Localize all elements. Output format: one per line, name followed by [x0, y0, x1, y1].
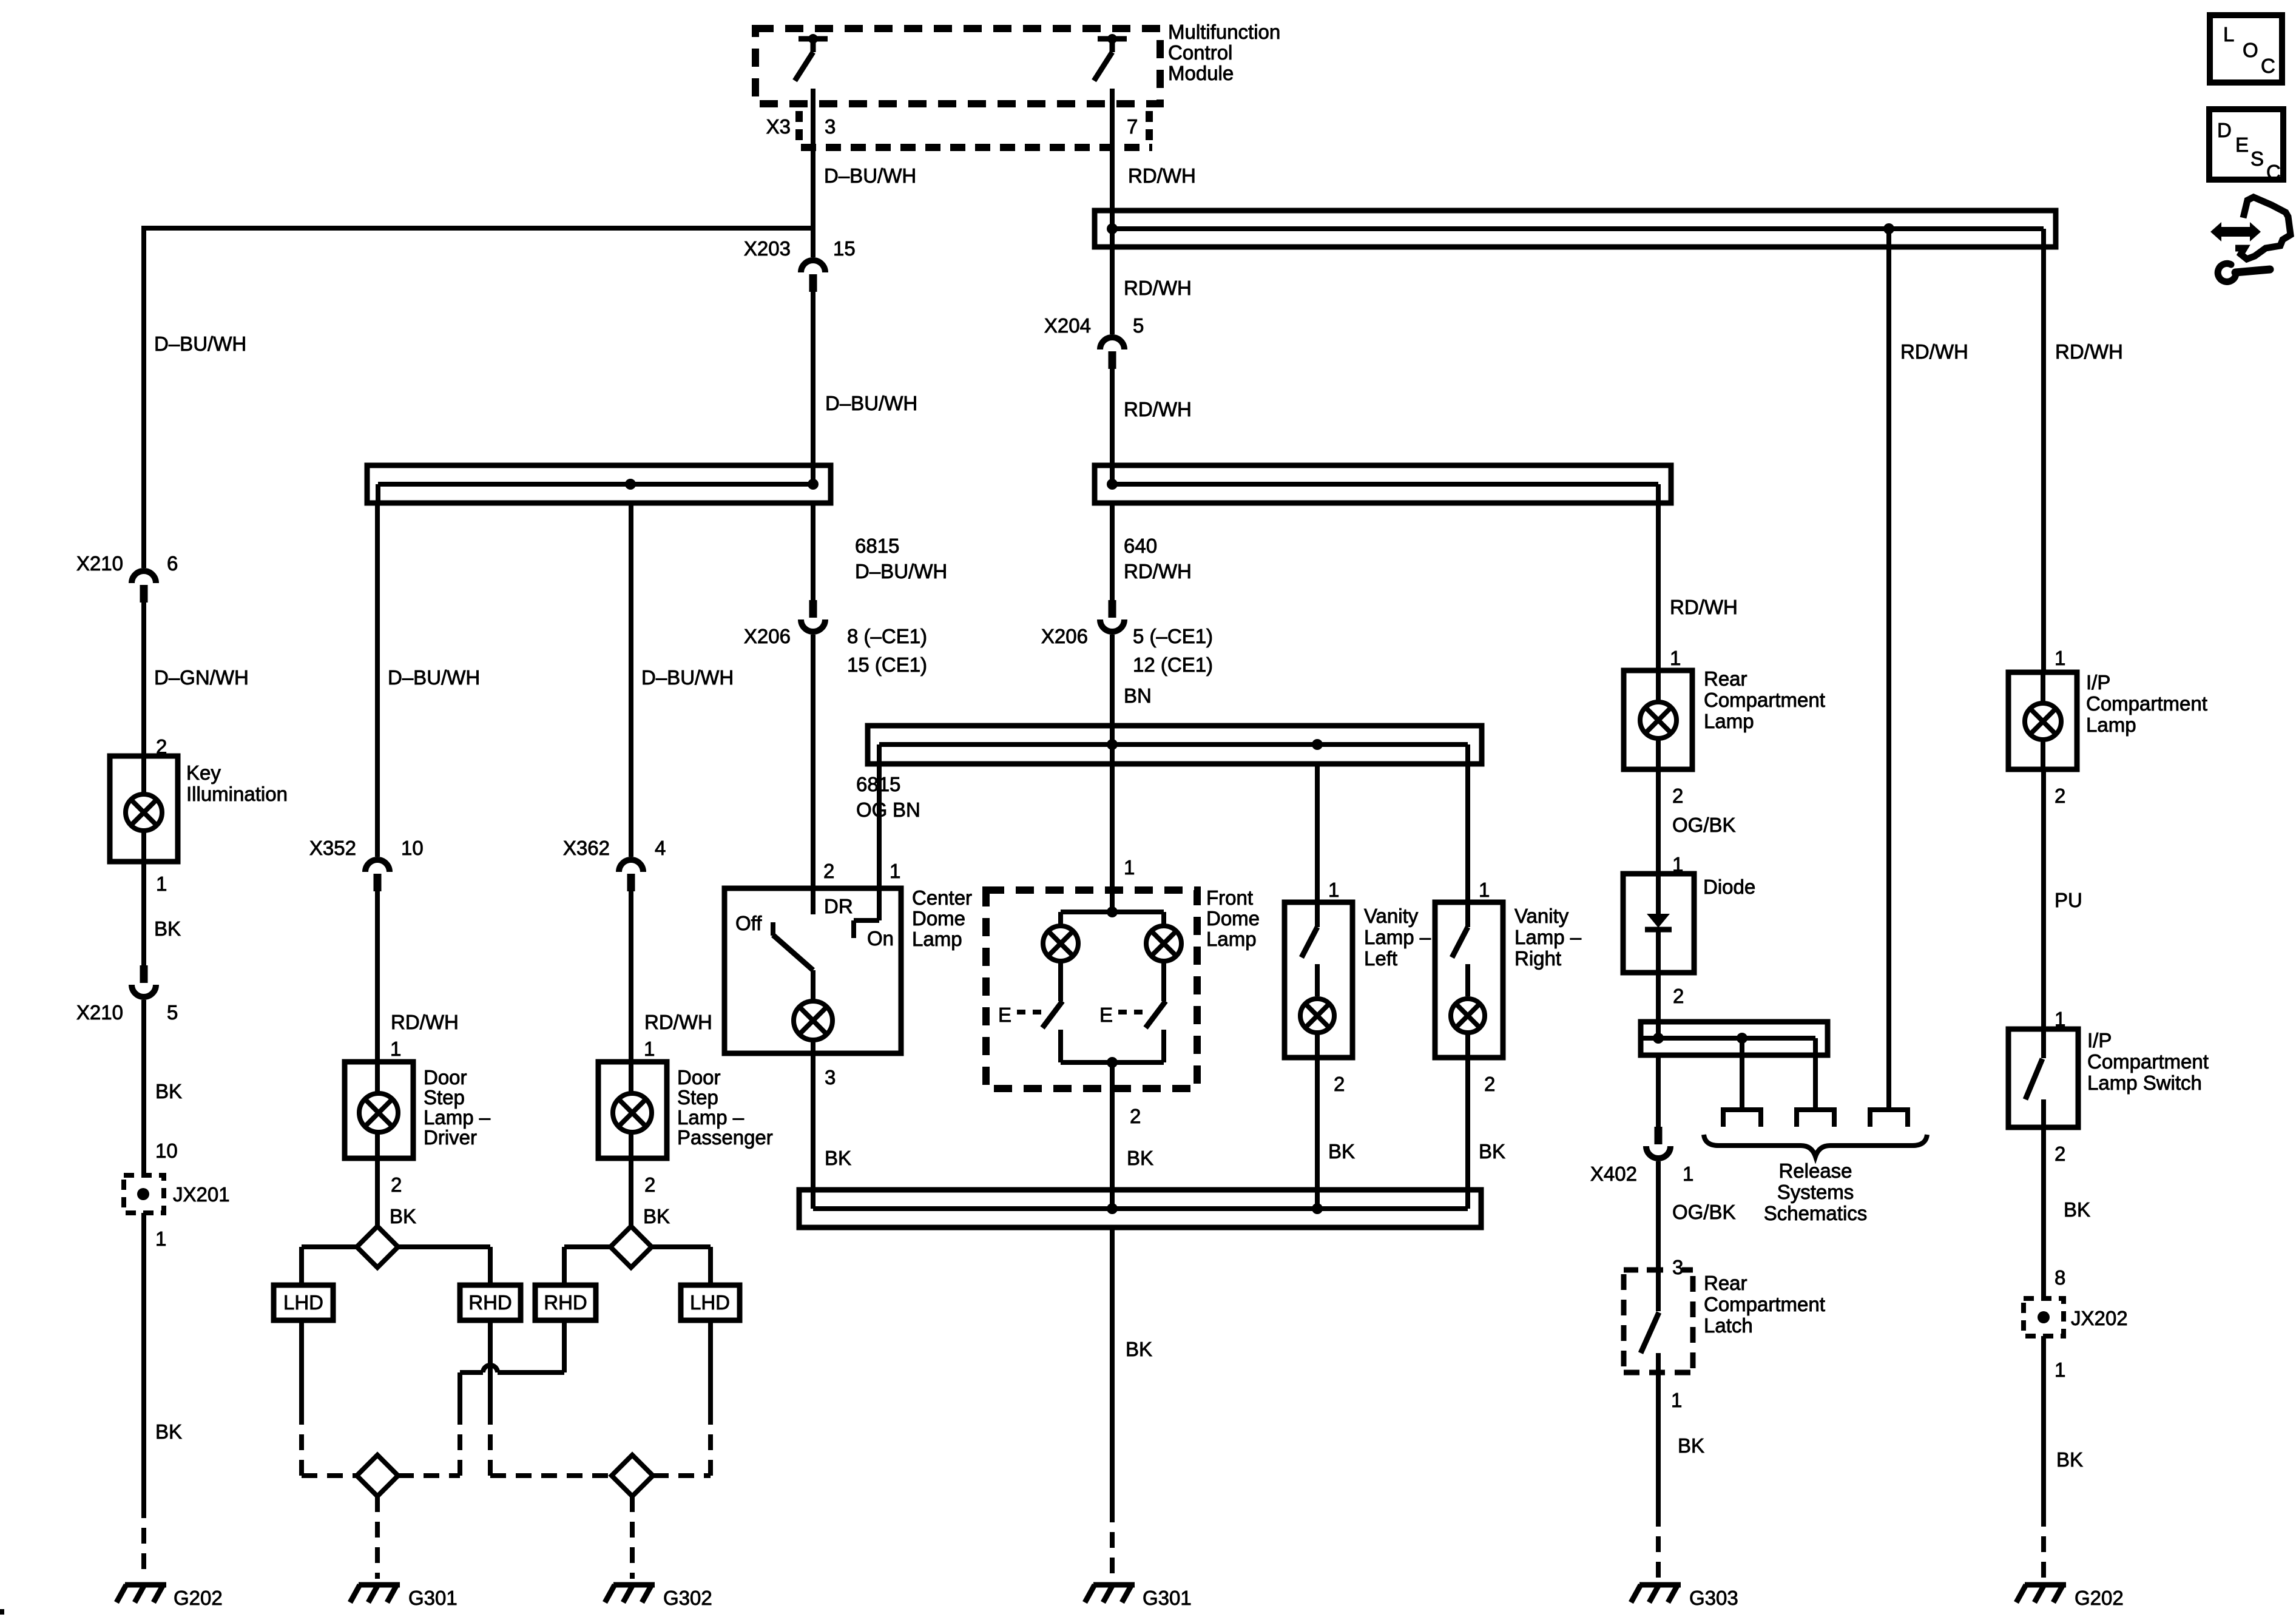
vanity right switch blade [1452, 927, 1468, 957]
svg-text:BK: BK [2056, 1448, 2083, 1471]
junction dot front dome top [1107, 906, 1118, 917]
connector X402 pin 1 [1655, 1127, 1663, 1144]
svg-text:RD/WH: RD/WH [644, 1011, 712, 1033]
svg-text:E: E [998, 1004, 1011, 1026]
vanity right mid stub [1465, 964, 1470, 996]
svg-text:Passenger: Passenger [677, 1126, 773, 1149]
front dome right lower contact [1161, 1030, 1166, 1062]
svg-text:Module: Module [1168, 62, 1234, 84]
svg-text:Lamp: Lamp [912, 928, 962, 950]
svg-text:2: 2 [1130, 1105, 1141, 1127]
svg-text:BK: BK [1127, 1147, 1153, 1169]
label X210 5 [76, 1001, 178, 1024]
wire below LHD passenger (solid then dashed) [708, 1320, 713, 1476]
front dome left bulb stub [1058, 912, 1063, 925]
svg-text:LHD: LHD [283, 1291, 323, 1314]
svg-text:L: L [2223, 23, 2234, 46]
front dome right switch blade [1146, 1001, 1166, 1028]
wire 6815 OG X206 to center dome lamp [811, 635, 815, 888]
wire MFCM pin7 down through bus to X204 [1110, 89, 1115, 334]
wire PU lamp to switch [2041, 769, 2046, 1029]
front dome left door-switch E [998, 1004, 1047, 1026]
connector X210 pin 5 [140, 965, 148, 983]
svg-text:X3: X3 [766, 115, 791, 138]
wire RD/WH X362 to door step lamp passenger [629, 891, 633, 1062]
svg-text:RD/WH: RD/WH [1128, 164, 1196, 187]
front dome right bulb lower stub [1161, 963, 1166, 1001]
svg-text:Center: Center [912, 886, 972, 909]
svg-text:C: C [2261, 55, 2275, 77]
junction dot JX201 [137, 1188, 149, 1200]
svg-text:RHD: RHD [544, 1291, 587, 1314]
label I/P Compartment Lamp [2086, 671, 2207, 736]
svg-text:7: 7 [1127, 115, 1138, 138]
center dome lamp stub [811, 970, 815, 1002]
wire passenger diamond to LHD [653, 1247, 711, 1285]
label Rear Compartment Lamp [1704, 667, 1825, 732]
variant box LHD (driver) [274, 1285, 333, 1320]
front dome bottom rail [1061, 1060, 1164, 1065]
center dome lamp bulb [794, 1001, 832, 1040]
horizontal branch wire to left column [141, 226, 813, 231]
component Key Illumination (box) [110, 756, 178, 862]
svg-text:D–BU/WH: D–BU/WH [825, 392, 917, 414]
svg-text:JX201: JX201 [173, 1183, 230, 1206]
svg-text:Compartment: Compartment [1704, 1293, 1825, 1315]
ground G202 (right) [2025, 1582, 2066, 1588]
svg-text:Illumination: Illumination [186, 783, 288, 805]
I/P switch blade [2025, 1059, 2042, 1099]
wire front dome pin1 entry [1110, 766, 1115, 912]
svg-text:3: 3 [1672, 1256, 1683, 1278]
I/P lamp bulb [2025, 703, 2061, 740]
svg-text:I/P: I/P [2086, 671, 2110, 694]
svg-text:Dome: Dome [912, 907, 965, 930]
svg-text:X210: X210 [76, 1001, 123, 1024]
vanity right switch stub [1465, 902, 1470, 927]
svg-text:6: 6 [167, 552, 178, 575]
svg-text:BK: BK [390, 1205, 416, 1227]
svg-text:4: 4 [655, 837, 666, 859]
ground G202 (left) [125, 1582, 166, 1588]
svg-text:Latch: Latch [1704, 1314, 1753, 1337]
latch switch lower stub [1656, 1353, 1661, 1372]
connector X206 pin 8/15 (center) [809, 600, 817, 618]
switch S2 inside MFCM (pin 7) [1094, 34, 1127, 81]
svg-text:G301: G301 [408, 1587, 458, 1609]
svg-text:1: 1 [2055, 1359, 2065, 1381]
svg-text:Key: Key [186, 761, 221, 784]
svg-text:1: 1 [1124, 856, 1135, 879]
junction dot bus1 at MFCM pin7 wire [1107, 223, 1118, 234]
label 6815 D-BU/WH [855, 535, 947, 582]
svg-text:OG/BK: OG/BK [1672, 1201, 1736, 1223]
svg-text:OG: OG [856, 798, 887, 821]
diode triangle [1647, 914, 1670, 928]
svg-text:BN: BN [893, 798, 920, 821]
wire BK switch to JX202 [2041, 1127, 2046, 1298]
label Door Step Lamp - Driver [424, 1066, 491, 1149]
door step lamp passenger bulb [613, 1093, 652, 1132]
svg-text:2: 2 [823, 860, 834, 882]
I/P lamp bottom stub [2041, 741, 2045, 769]
icon LOC box [2210, 15, 2282, 83]
wire D-BU/WH bus2 to X362 [629, 505, 633, 857]
svg-text:2: 2 [1673, 985, 1684, 1007]
dashed lead to G302 [630, 1496, 635, 1579]
wire BN X206 to BN bus [1110, 635, 1115, 766]
label X203 15 [744, 237, 856, 260]
svg-text:RD/WH: RD/WH [1124, 277, 1192, 299]
svg-text:RD/WH: RD/WH [1124, 398, 1192, 420]
component Center Dome Lamp (box) [724, 888, 901, 1053]
wire OG/BK X402 to latch [1656, 1161, 1661, 1270]
diode anode wire [1656, 874, 1661, 916]
latch switch blade [1641, 1312, 1659, 1353]
release stub 1 terminal [1723, 1110, 1761, 1127]
switch S1 inside MFCM (pin 3) [795, 34, 828, 81]
wire BN into center dome pin 1 [877, 766, 882, 920]
svg-text:Lamp: Lamp [1704, 710, 1754, 732]
svg-text:Diode: Diode [1703, 876, 1755, 898]
svg-text:I/P: I/P [2087, 1029, 2112, 1052]
svg-text:2: 2 [644, 1173, 655, 1196]
wire BK bus to G301 [1110, 1227, 1115, 1507]
svg-text:Door: Door [424, 1066, 467, 1089]
junction block JX202 (dashed box) [2024, 1298, 2064, 1336]
svg-text:5: 5 [167, 1001, 178, 1024]
wire D-BU/WH bus2 to X352 [375, 505, 380, 857]
label X204 5 [1044, 314, 1144, 337]
svg-text:RD/WH: RD/WH [2055, 340, 2123, 363]
center dome pin1 internal path and On contact [854, 920, 879, 938]
junction dot bus2 at X362 branch [625, 479, 636, 490]
front dome left bulb lower stub [1058, 963, 1063, 1001]
component Door Step Lamp - Driver (box) [345, 1062, 413, 1158]
svg-text:RD/WH: RD/WH [1124, 560, 1192, 582]
label X3 pins 3 and 7 [766, 115, 1138, 138]
svg-text:G302: G302 [663, 1587, 712, 1609]
junction dot BK bus at front dome wire [1107, 1203, 1118, 1214]
diode cathode bar [1645, 927, 1672, 933]
label Release Systems Schematics [1764, 1160, 1868, 1224]
wire below RHD driver (solid then dashed) [488, 1320, 493, 1476]
label Center Dome Lamp [912, 886, 972, 950]
key illumination bottom stub [141, 832, 146, 862]
wire D-GN/WH X210 to key illumination [141, 603, 146, 756]
svg-text:Systems: Systems [1777, 1181, 1854, 1203]
svg-text:E: E [2235, 133, 2249, 156]
svg-text:1: 1 [1683, 1163, 1693, 1185]
wire front dome pin 2 out [1110, 1062, 1115, 1209]
svg-text:10: 10 [155, 1139, 178, 1162]
svg-text:12 (CE1): 12 (CE1) [1133, 653, 1213, 676]
svg-text:BK: BK [155, 1420, 182, 1443]
svg-text:Off: Off [735, 912, 762, 934]
wire diode to release bus [1656, 973, 1661, 1038]
door step lamp driver bulb [359, 1093, 398, 1132]
svg-text:Front: Front [1206, 886, 1253, 909]
ground G303 [1639, 1582, 1681, 1588]
front dome left switch blade [1042, 1001, 1062, 1028]
junction block JX201 (dashed box) [124, 1175, 164, 1213]
svg-text:BK: BK [154, 917, 181, 940]
svg-text:BK: BK [2064, 1198, 2090, 1221]
svg-text:Door: Door [677, 1066, 721, 1089]
door step lamp passenger top stub [629, 1062, 633, 1093]
wire 640 RD/WH bus3 to X206 right [1110, 505, 1115, 600]
junction dot bus2 at X203 wire [808, 479, 819, 490]
svg-text:X402: X402 [1590, 1163, 1637, 1185]
component Rear Compartment Lamp (box) [1624, 670, 1692, 769]
svg-text:1: 1 [1328, 879, 1339, 901]
label X206 8 (-CE1) 15 (CE1) [744, 625, 927, 676]
release stub 1 wire [1740, 1038, 1744, 1110]
connector X210 pin 6 [132, 571, 156, 583]
latch switch upper stub [1656, 1270, 1661, 1311]
svg-text:640: 640 [1124, 535, 1157, 557]
component Diode (box) [1623, 874, 1694, 973]
svg-text:1: 1 [1671, 1389, 1682, 1411]
svg-text:Lamp –: Lamp – [424, 1106, 491, 1129]
dashed rail to G301 splice (left) [302, 1473, 460, 1478]
svg-text:Lamp Switch: Lamp Switch [2087, 1072, 2202, 1094]
bus bar RD/WH (top right) [1095, 211, 2056, 249]
wire BK latch to G303 [1656, 1372, 1661, 1511]
wire MFCM pin3 down to X203 [811, 89, 815, 257]
svg-text:Lamp –: Lamp – [677, 1106, 745, 1129]
svg-text:E: E [1099, 1004, 1113, 1026]
svg-text:D: D [2217, 119, 2232, 141]
rear compartment lamp bottom stub [1656, 740, 1661, 769]
svg-text:2: 2 [2055, 785, 2065, 807]
module Multifunction Control Module (dashed outline) [755, 29, 1160, 104]
svg-text:X210: X210 [76, 552, 123, 575]
bus bar RD/WH (center, bus3) [1095, 465, 1671, 505]
svg-text:Lamp –: Lamp – [1364, 926, 1431, 948]
svg-text:Multifunction: Multifunction [1168, 21, 1280, 43]
splice diamond G301 path [357, 1455, 398, 1496]
rear compartment lamp top stub [1656, 670, 1661, 701]
svg-text:2: 2 [1484, 1073, 1495, 1095]
dashed lead to G301 (left) [375, 1496, 380, 1579]
svg-text:G301: G301 [1143, 1587, 1192, 1609]
vanity right lower stub [1465, 1033, 1470, 1058]
center dome Off contact [771, 922, 775, 936]
wire BK JX201 down [141, 1213, 146, 1502]
wire RD/WH bus1 to release stub 3 [1886, 229, 1891, 1110]
svg-text:G202: G202 [2075, 1587, 2124, 1609]
junction dot JX202 [2038, 1311, 2050, 1323]
label X206 5 (-CE1) 12 (CE1) [1041, 625, 1213, 676]
wire center dome pin 3 out [811, 1039, 815, 1053]
brace Release Systems Schematics [1704, 1135, 1927, 1156]
svg-text:X206: X206 [744, 625, 791, 647]
key illumination top stub [141, 756, 146, 794]
icon DESC box [2209, 109, 2283, 183]
connector X362 pin 4 [619, 860, 643, 872]
variant box RHD (passenger) [535, 1285, 596, 1320]
dashed lead to G202 (right) [2041, 1511, 2046, 1579]
svg-text:Step: Step [424, 1086, 465, 1109]
svg-text:Dome: Dome [1206, 907, 1260, 930]
component I/P Compartment Lamp Switch (box) [2008, 1029, 2078, 1127]
release stub 2 terminal [1797, 1110, 1834, 1127]
splice diamond (door step driver) [357, 1226, 398, 1268]
label Front Dome Lamp [1206, 886, 1260, 950]
I/P switch upper stub [2041, 1029, 2046, 1058]
vanity right bulb [1451, 999, 1485, 1033]
svg-text:OG/BK: OG/BK [1672, 814, 1736, 836]
svg-text:JX202: JX202 [2071, 1307, 2128, 1329]
variant box LHD (passenger) [681, 1285, 740, 1320]
door step lamp passenger bottom stub [629, 1132, 633, 1158]
svg-text:O: O [2243, 39, 2258, 61]
wire BN to vanity lamp left [1315, 766, 1320, 902]
vanity left switch blade [1302, 927, 1317, 957]
connector X204 pin 5 [1100, 337, 1124, 349]
svg-text:RD/WH: RD/WH [391, 1011, 459, 1033]
svg-text:BK: BK [1328, 1140, 1355, 1163]
svg-text:5: 5 [1133, 314, 1144, 337]
door step lamp driver top stub [375, 1062, 380, 1093]
bus bar release systems [1641, 1022, 1828, 1058]
variant box RHD (driver) [460, 1285, 521, 1320]
wire BK X210-5 to JX201 [141, 1000, 146, 1175]
svg-text:Vanity: Vanity [1364, 905, 1419, 927]
wire BK door step driver to splice diamond [375, 1158, 380, 1226]
dashed lead to G202 (left) [141, 1502, 146, 1579]
svg-text:S: S [2250, 147, 2264, 170]
label Door Step Lamp - Passenger [677, 1066, 773, 1149]
svg-text:2: 2 [2055, 1143, 2065, 1165]
svg-text:15: 15 [833, 237, 856, 260]
svg-text:1: 1 [644, 1038, 655, 1060]
svg-text:1: 1 [1479, 879, 1490, 901]
front dome left lower contact [1058, 1030, 1063, 1062]
svg-text:X204: X204 [1044, 314, 1091, 337]
svg-text:D–GN/WH: D–GN/WH [154, 666, 249, 689]
wire left column down to X210-6 [141, 228, 146, 568]
svg-text:X203: X203 [744, 237, 791, 260]
svg-text:X206: X206 [1041, 625, 1088, 647]
svg-text:On: On [867, 927, 894, 950]
svg-text:2: 2 [1334, 1073, 1345, 1095]
page artifact dot (bottom-left) [0, 1609, 4, 1615]
svg-text:D–BU/WH: D–BU/WH [154, 333, 246, 355]
front dome left bulb [1043, 926, 1078, 961]
label Rear Compartment Latch [1704, 1272, 1825, 1337]
ground G302 [613, 1582, 655, 1588]
svg-text:5 (–CE1): 5 (–CE1) [1133, 625, 1213, 647]
svg-text:1: 1 [2055, 647, 2065, 669]
svg-text:DR: DR [824, 895, 853, 917]
svg-text:Lamp –: Lamp – [1514, 926, 1582, 948]
svg-text:C: C [2266, 161, 2281, 183]
wire RD/WH bus1 to I/P compartment lamp [2041, 249, 2046, 672]
wire D-BU/WH X203 to bus2 [811, 292, 815, 484]
svg-text:8: 8 [2055, 1266, 2065, 1289]
front dome right bulb [1146, 926, 1181, 961]
svg-text:RHD: RHD [468, 1291, 512, 1314]
bus bar BN (above dome lamps) [868, 726, 1482, 766]
front dome top rail [1061, 910, 1164, 914]
svg-text:1: 1 [890, 860, 900, 882]
wire below LHD driver (solid then dashed) [299, 1320, 304, 1476]
wire RD/WH bus3 to rear compartment lamp [1656, 505, 1661, 670]
wire BK center dome to BK bus [811, 1053, 815, 1209]
label X352 10 [309, 837, 424, 859]
svg-text:3: 3 [825, 1066, 836, 1089]
label X210 6 [76, 552, 178, 575]
svg-text:BK: BK [1126, 1338, 1152, 1360]
svg-text:15 (CE1): 15 (CE1) [847, 653, 927, 676]
I/P lamp top stub [2041, 672, 2045, 703]
svg-text:RD/WH: RD/WH [1670, 596, 1738, 618]
release stub 3 terminal [1870, 1110, 1908, 1127]
component Front Dome Lamp (dashed box) [986, 890, 1197, 1089]
label X402 1 [1590, 1163, 1693, 1185]
svg-text:Right: Right [1514, 947, 1561, 970]
splice diamond (door step passenger) [610, 1226, 652, 1268]
svg-text:Rear: Rear [1704, 1272, 1747, 1294]
wire RD/WH X352 to door step lamp driver [375, 891, 380, 1062]
svg-text:Control: Control [1168, 41, 1232, 64]
junction dot BN bus at front dome wire [1107, 739, 1118, 750]
vanity left bulb [1300, 999, 1334, 1033]
junction dot bus1 at release-systems drop [1883, 223, 1894, 234]
label 640 RD/WH [1124, 535, 1192, 582]
svg-text:8 (–CE1): 8 (–CE1) [847, 625, 927, 647]
svg-text:BK: BK [155, 1080, 182, 1102]
junction dot BK bus at vanity-left wire [1312, 1203, 1323, 1214]
component Door Step Lamp - Passenger (box) [598, 1062, 667, 1158]
svg-text:PU: PU [2055, 889, 2082, 911]
svg-text:Compartment: Compartment [1704, 689, 1825, 711]
wire driver diamond to RHD [398, 1247, 490, 1285]
label I/P Compartment Lamp Switch [2087, 1029, 2209, 1094]
wire BK door step passenger to splice diamond [629, 1158, 633, 1226]
key illumination bulb [126, 794, 162, 831]
wire BK vanity right to BK bus [1465, 1058, 1470, 1209]
svg-text:BN: BN [1124, 684, 1152, 707]
vanity left switch stub [1315, 902, 1320, 927]
label Vanity Lamp - Left [1364, 905, 1431, 970]
svg-text:2: 2 [391, 1173, 402, 1196]
component I/P Compartment Lamp (box) [2008, 672, 2077, 769]
svg-text:D–BU/WH: D–BU/WH [641, 666, 734, 689]
bus bar BK (below lamps) [799, 1187, 1481, 1227]
svg-text:D–BU/WH: D–BU/WH [388, 666, 480, 689]
svg-text:BK: BK [825, 1147, 851, 1169]
icon double arrow with hook and wrench [2210, 197, 2291, 282]
svg-text:1: 1 [155, 1227, 166, 1250]
svg-text:Step: Step [677, 1086, 718, 1109]
wire BK key illumination to X210-5 [141, 862, 146, 965]
vanity left mid stub [1315, 964, 1320, 996]
connector X352 pin 10 [365, 860, 390, 872]
svg-text:BK: BK [643, 1205, 670, 1227]
dashed rail to G302 splice [490, 1473, 711, 1478]
wire RD/WH X204 to bus3 [1110, 369, 1115, 484]
ground G301 (center) [1093, 1582, 1135, 1588]
svg-text:D–BU/WH: D–BU/WH [855, 560, 947, 582]
svg-text:Compartment: Compartment [2087, 1050, 2209, 1073]
dashed lead to G303 [1656, 1511, 1661, 1579]
connector X203 pin 15 [801, 260, 825, 272]
svg-text:3: 3 [825, 115, 836, 138]
center dome switch blade [773, 935, 813, 970]
